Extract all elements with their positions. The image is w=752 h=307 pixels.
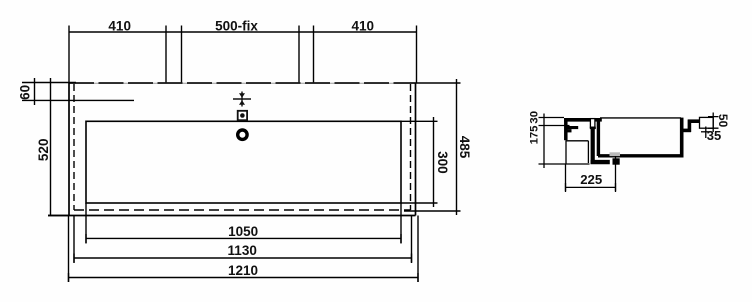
side: 30 bottom tick bbox=[539, 125, 570, 127]
1210 extension left bbox=[68, 216, 70, 283]
300 dimension line bbox=[433, 117, 435, 207]
svg-text:225: 225 bbox=[580, 172, 602, 187]
1130 dimension line bbox=[74, 257, 412, 259]
1130 extension right bbox=[411, 216, 413, 264]
svg-text:410: 410 bbox=[108, 18, 131, 33]
svg-text:410: 410 bbox=[352, 18, 375, 33]
basin bottom edge bbox=[48, 215, 416, 217]
side: fixing block bottom cap bbox=[590, 127, 596, 129]
side: left box right edge thin bbox=[587, 141, 589, 163]
side: 225 dimension line bbox=[566, 186, 616, 188]
1210 dimension line bbox=[69, 277, 419, 279]
side: bowl floor bar bbox=[598, 154, 683, 157]
side: step ledge upper bbox=[565, 126, 579, 129]
extension line left 410 start bbox=[68, 26, 70, 84]
tap hole crosshair bbox=[233, 92, 251, 107]
basin outer left edge bbox=[68, 83, 70, 216]
side: 50 dimension line bbox=[712, 113, 714, 133]
side profile bbox=[564, 117, 713, 164]
side: 175 bottom tick / box bottom line bbox=[539, 163, 590, 165]
side: 30 top tick bbox=[539, 117, 565, 119]
side: left wall thick bbox=[564, 118, 568, 140]
extension line 410/500 tick A bbox=[165, 26, 167, 84]
inner basin rectangle bbox=[86, 121, 401, 203]
485 top tick bbox=[416, 82, 461, 84]
hidden dashed bottom edge bbox=[74, 209, 411, 211]
top dimension line bbox=[69, 31, 417, 33]
svg-text:1210: 1210 bbox=[228, 263, 258, 278]
60 top tick bbox=[22, 82, 76, 84]
basin top edge underlay bbox=[69, 82, 416, 84]
svg-text:300: 300 bbox=[435, 151, 450, 174]
side: left box top line thin bbox=[566, 140, 588, 142]
extension line right 410 end bbox=[416, 26, 418, 84]
side: rim top line bbox=[600, 117, 681, 119]
svg-text:60: 60 bbox=[18, 85, 33, 100]
extension line 500-fix start bbox=[181, 26, 183, 84]
svg-text:500-fix: 500-fix bbox=[215, 18, 258, 33]
svg-text:520: 520 bbox=[36, 139, 51, 162]
side: lip step down thick bbox=[682, 129, 691, 133]
300 bottom tick bbox=[401, 202, 438, 204]
485 dimension line bbox=[456, 79, 458, 215]
520 bottom tick bbox=[48, 215, 69, 217]
1050 extension left bbox=[85, 203, 87, 244]
svg-text:1130: 1130 bbox=[228, 243, 257, 258]
side: drain gray block bbox=[610, 152, 621, 156]
1050 extension right bbox=[400, 203, 402, 244]
svg-text:30: 30 bbox=[529, 111, 541, 124]
side: 225 extension right bbox=[615, 156, 617, 191]
1210 end ticks bbox=[69, 273, 419, 282]
side: lip step up thick bbox=[688, 120, 692, 133]
side: 225 extension left bbox=[565, 164, 567, 191]
side: bowl back wall thick bbox=[591, 129, 595, 163]
1050 end ticks bbox=[86, 234, 401, 243]
485 bottom tick bbox=[404, 210, 461, 212]
1050 dimension line bbox=[86, 237, 401, 239]
side: rail thin box bbox=[700, 117, 714, 128]
drain circle bbox=[238, 130, 247, 139]
extension line 500-fix end bbox=[298, 26, 300, 84]
side: 50 ticks bbox=[708, 117, 719, 129]
hidden dashed right edge bbox=[410, 84, 412, 210]
side: top bar thick bbox=[564, 118, 590, 122]
520 dimension line bbox=[50, 78, 52, 216]
overflow square symbol bbox=[238, 111, 247, 120]
side: 35 tick bbox=[701, 131, 711, 133]
svg-text:50: 50 bbox=[716, 114, 730, 128]
hidden dashed left edge bbox=[73, 84, 75, 210]
60 dimension line bbox=[34, 78, 36, 105]
300 top tick bbox=[401, 120, 438, 122]
side: sump right block bbox=[613, 158, 620, 164]
svg-text:1050: 1050 bbox=[228, 224, 258, 239]
side: right wall thick bbox=[680, 118, 684, 158]
side: sump bottom thick bbox=[591, 160, 610, 164]
basin outer right edge bbox=[415, 83, 417, 216]
1210 extension right bbox=[417, 216, 419, 283]
60 level line bbox=[22, 99, 134, 101]
side: bowl inner wall bbox=[597, 120, 600, 156]
svg-text:35: 35 bbox=[707, 128, 721, 143]
side: left box left edge thin bbox=[565, 140, 567, 164]
basin top edge bbox=[69, 82, 416, 84]
side: 225 end ticks bbox=[566, 183, 616, 192]
side: step ledge lower bbox=[565, 129, 572, 132]
1130 end ticks bbox=[74, 254, 412, 263]
1130 extension left bbox=[73, 216, 75, 264]
side: lip top bar thick bbox=[688, 119, 700, 123]
extension line right 410 start bbox=[313, 26, 315, 84]
side: fixing block white bbox=[590, 119, 595, 128]
side: 175/30 dimension line bbox=[543, 114, 545, 169]
side: 35 dimension line bbox=[705, 127, 707, 139]
svg-text:175: 175 bbox=[529, 126, 541, 145]
svg-text:485: 485 bbox=[457, 136, 472, 159]
